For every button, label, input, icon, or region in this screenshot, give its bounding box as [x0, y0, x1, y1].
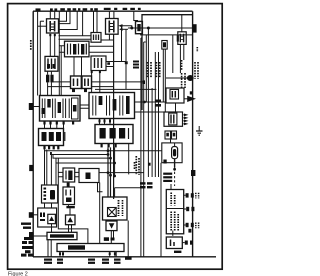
wires D bottom down to box E	[98, 183, 103, 192]
vertical hanging from 34.9 wire	[145, 35, 147, 102]
tick under bottom box	[174, 251, 181, 253]
tall switch box right	[166, 190, 183, 234]
wire long cross to box G	[82, 11, 84, 36]
connector blob on left bus	[29, 103, 34, 110]
relay M inside N	[178, 32, 186, 45]
relay R2	[106, 19, 119, 35]
wire across to right bus	[128, 27, 193, 29]
long wire across at 172.8	[108, 172, 144, 174]
left bus wire	[32, 11, 34, 257]
box D	[79, 169, 99, 183]
svg-text:Figure 2: Figure 2	[8, 272, 28, 276]
wire from F area to bus	[127, 221, 129, 257]
label beside M	[177, 35, 179, 41]
vertical label pair mid	[135, 156, 140, 175]
wire pair down to resistor box	[170, 139, 172, 143]
bus blob near lamp labels	[29, 212, 34, 218]
wire C1 top to bus	[134, 11, 138, 21]
wire resistor bottom stem	[174, 159, 176, 168]
wire W right to trunk	[89, 46, 114, 52]
wire R2 top pins to bus	[109, 11, 114, 18]
labels under resistor	[163, 173, 172, 182]
wire tall box bottom to lamp box	[172, 231, 174, 236]
wires B to lamp2	[69, 205, 71, 216]
fuse box left	[40, 96, 81, 122]
wire R1 bottom pins down to relay K	[50, 36, 54, 56]
connector dot right 1	[190, 91, 193, 94]
wire fusebox M to nested2	[135, 111, 165, 113]
wires down from relay M2	[108, 147, 111, 197]
wire E top right across	[115, 188, 144, 197]
label RE/EE	[155, 100, 161, 107]
fuse box left bottom pins	[43, 122, 74, 125]
text right of connector pairs	[196, 193, 199, 229]
resistor box outline	[162, 143, 182, 163]
box B	[63, 187, 75, 205]
wire M pins down	[180, 44, 183, 73]
left bus vertical label	[30, 40, 32, 50]
labels under bottom bus	[44, 256, 132, 264]
blob in resistor box corner	[163, 160, 166, 164]
small label block A/C	[133, 61, 139, 69]
bottom right lamp box	[166, 237, 182, 249]
connector pairs right of tall box	[186, 193, 195, 227]
wires fuse L to fuse M	[80, 105, 89, 108]
connector right of bottom box	[185, 241, 193, 245]
connector J2	[82, 76, 92, 89]
bar box bottom pins	[60, 252, 116, 257]
relay M2 bottom pins	[101, 144, 117, 147]
wires A bottom into A2	[45, 203, 52, 208]
big ECU box N top right	[142, 15, 192, 110]
blob on mid vertical	[148, 163, 151, 166]
nested boxes right 2	[164, 112, 183, 126]
wire drop into relay R1	[37, 11, 39, 95]
vertical text labels in N	[148, 62, 160, 78]
wire drop left of box W	[58, 11, 60, 95]
bottom bus wire	[33, 256, 216, 258]
trunk verticals mid-right	[140, 38, 142, 257]
wire I right side	[106, 62, 126, 67]
wire across N at 34.9	[140, 34, 192, 36]
vertical text labels left of arrow	[182, 60, 185, 88]
junction dots	[130, 27, 133, 30]
resistor component	[172, 147, 178, 159]
wire M top to N top	[181, 15, 183, 32]
bottom left label column	[21, 223, 33, 257]
dashed wire below resistor	[174, 168, 176, 186]
wire second left drop	[39, 21, 41, 95]
arrow wires left-pointing at node	[122, 26, 132, 28]
mid verticals to right cluster	[122, 26, 127, 62]
long wires across middle	[45, 150, 162, 151]
ground symbol right	[196, 131, 203, 135]
battery box	[47, 232, 77, 239]
top terminal labels row	[36, 8, 141, 11]
blobs under F	[104, 237, 115, 241]
long wire to nested1	[95, 88, 156, 90]
wire resistor top	[174, 143, 176, 147]
wires G top to bus	[94, 11, 98, 32]
box E with crossed lamp	[103, 197, 128, 220]
box V small in N	[162, 41, 167, 50]
wire tall box top	[170, 184, 172, 190]
text right of bus	[195, 62, 198, 79]
blob on right bus mid	[191, 170, 195, 176]
wire R2 bottom pin 2	[108, 34, 110, 40]
verticals inside N going down	[155, 49, 165, 112]
wire verticals into nested2	[155, 88, 158, 177]
top bus wire	[33, 10, 193, 12]
border frame	[8, 4, 223, 270]
wires battery bottom to bus	[48, 240, 51, 257]
fuse box mid pins to relay M2	[100, 119, 111, 125]
wires relay L2 pins down to box A	[44, 150, 46, 186]
relay K	[45, 56, 58, 71]
wire R2 bottom pin trunk down	[113, 34, 115, 199]
labels left of tall box	[140, 182, 153, 188]
terminal stack under K	[46, 75, 54, 83]
wire nested1 to nested2	[175, 103, 177, 112]
staircase wires from top bus to relay R1 right pins	[59, 11, 67, 21]
nested boxes right 1	[166, 88, 184, 103]
tiny text right of bus upper	[196, 47, 198, 52]
connector C1 on wire	[136, 21, 143, 33]
wire R1 top pins to bus	[50, 11, 54, 19]
relay block mid2	[95, 125, 133, 144]
pins below connector J	[72, 89, 75, 93]
bus blob to battery	[29, 232, 33, 240]
wires F down	[111, 231, 113, 244]
connector J1	[71, 76, 82, 89]
wires lamp triangles down to battery	[69, 225, 72, 233]
right bus wire	[192, 11, 194, 257]
box A	[42, 185, 58, 203]
arrow pointer right	[166, 77, 188, 79]
dark bar above lamp 2	[66, 206, 74, 208]
wires C to D	[75, 172, 79, 176]
arrow 2 to bus	[184, 98, 188, 100]
wire bus to fuse box	[33, 106, 39, 108]
box I	[91, 56, 106, 71]
wires K bottom down to fuse box	[47, 82, 49, 95]
wire J to trunk	[92, 82, 144, 87]
connector ticks right of I	[125, 61, 128, 64]
wires E to F	[111, 220, 114, 221]
box G	[91, 33, 101, 43]
fuse box middle	[89, 93, 135, 119]
wire I bottom pins	[92, 71, 100, 93]
long vertical wire to bottom bus	[160, 163, 162, 257]
lamp triangle 1 in A2	[48, 214, 56, 223]
arrow rows right of box	[184, 114, 189, 126]
box A2 outer	[38, 208, 57, 227]
wires into relay L2	[45, 125, 64, 129]
relay block left2	[39, 129, 65, 146]
box C	[63, 168, 75, 182]
wire verticals mid band	[148, 28, 152, 177]
long bar box	[57, 244, 124, 252]
box F triangle down	[106, 221, 117, 231]
wire crossing to D and vertical	[99, 172, 108, 174]
wire horizontal into nested1	[135, 101, 167, 103]
wire stub into box C	[58, 158, 88, 243]
lamp triangle 2	[66, 215, 76, 225]
wire G right to trunk	[101, 39, 114, 41]
relay R1	[47, 19, 59, 36]
left bus mid blob	[29, 165, 33, 171]
connector pair mid right low	[188, 229, 191, 233]
text in A2	[40, 213, 45, 222]
junction dots on middle wires	[107, 149, 116, 177]
wire M area down to arrow box	[172, 35, 174, 73]
small box pair under nested2	[165, 131, 177, 139]
connector blob on right bus	[193, 24, 197, 32]
box C bottom pin	[67, 183, 70, 187]
wire to connector pair J	[48, 82, 71, 87]
wire W bottom pins to connector J	[74, 57, 82, 76]
wide box W	[65, 41, 90, 57]
relay L2 bottom pins	[43, 146, 59, 149]
